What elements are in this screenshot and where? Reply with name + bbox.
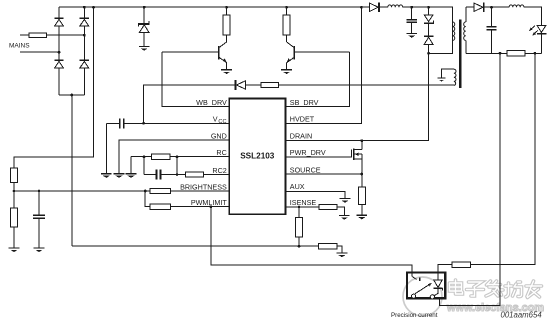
svg-text:MAINS: MAINS <box>9 42 30 49</box>
transformer T1: core <box>459 20 461 89</box>
node: drain junction <box>360 139 363 142</box>
node: negative rail junction <box>298 245 301 248</box>
svg-text:BRIGHTNESS: BRIGHTNESS <box>180 182 227 191</box>
wire: bridge negative join <box>59 94 84 96</box>
op-amp U1: SSL2103 controller body <box>229 98 285 214</box>
ground: left transistor emitter <box>221 69 232 74</box>
wire: GND pin to ground <box>119 140 229 173</box>
node: rail junction right collector resistor <box>285 6 288 9</box>
ground: VCC cap <box>101 173 112 178</box>
resistor: precision block series <box>452 262 470 267</box>
transistor: right NPN (string balance drive, mirrored) <box>286 42 295 69</box>
node: PWMLIMIT junction to dim loop <box>209 205 212 208</box>
node: source junction <box>360 173 363 176</box>
svg-text:RC: RC <box>216 148 226 157</box>
capacitor: snubber cap to ground <box>407 7 417 33</box>
ground: source sense resistor <box>356 215 367 220</box>
node: mains line 1 junction <box>83 34 86 37</box>
LED: output LED <box>529 25 547 53</box>
label: pin VCC <box>213 115 227 125</box>
wire: top rail between flyback diode and inductor <box>378 6 388 8</box>
bridge diode D2 (top-right) <box>80 7 89 59</box>
node: brightness-pwmlimit tie <box>144 190 147 193</box>
wire: WB_DRV to left transistor base <box>162 52 229 106</box>
ground: rail TVS <box>139 46 150 51</box>
wire: left transistor base <box>162 51 218 53</box>
node: precision block terminal 1 <box>412 294 416 298</box>
svg-text:SSL2103: SSL2103 <box>240 152 275 161</box>
ground: brightness cap <box>34 247 45 252</box>
transformer T1: primary winding <box>452 7 454 53</box>
zener diode: clamp TVS (upper) <box>424 7 434 36</box>
node: RC node right <box>176 155 179 158</box>
node: bridge negative junction <box>71 94 74 97</box>
svg-text:HVDET: HVDET <box>290 115 315 124</box>
node: brightness cap tap <box>38 190 41 193</box>
wire: rectified HV top rail <box>59 6 370 8</box>
resistor: return rail to ground <box>318 244 342 253</box>
svg-text:Precision current: Precision current <box>391 312 438 319</box>
capacitor: RC2 parallel <box>144 170 177 180</box>
ground: divider lower <box>9 247 20 252</box>
node: VCC junction to aux supply <box>142 122 145 125</box>
resistor: left collector resistor <box>223 7 230 42</box>
svg-text:PWMLIMIT: PWMLIMIT <box>191 198 228 207</box>
wire: divider mid <box>13 183 15 191</box>
ground: ISENSE <box>339 215 350 220</box>
diode: clamp blocking (lower, points up) <box>424 36 434 54</box>
node: ISENSE divider junction <box>298 206 301 209</box>
node: secondary cap junction <box>490 6 493 9</box>
resistor: LED current sense <box>466 51 542 56</box>
node: precision block terminal 2 <box>430 295 434 299</box>
svg-text:001aam654: 001aam654 <box>501 311 543 320</box>
wire: negative return rail <box>72 245 319 247</box>
node: sense left tap <box>499 52 502 55</box>
wire: clamp junction down to drain line <box>428 53 430 140</box>
wire: sense right tap down <box>470 53 535 264</box>
wire: top rail from inductor to transformer primary <box>403 7 453 53</box>
resistor: ISENSE pulldown <box>296 207 303 246</box>
node: rail junction x84 <box>83 6 86 9</box>
svg-text:CC: CC <box>218 119 226 125</box>
wire: RC-RC2 tie left <box>143 157 145 175</box>
watermark: elecfans logo circle <box>403 277 442 316</box>
svg-text:ISENSE: ISENSE <box>290 198 317 207</box>
svg-text:SB_DRV: SB_DRV <box>290 98 319 107</box>
resistor: divider lower <box>11 191 18 247</box>
wire: secondary top right <box>524 7 542 25</box>
resistor: RC2 series <box>177 172 229 177</box>
transistor: precision block internal transistor <box>412 277 432 294</box>
svg-text:PWR_DRV: PWR_DRV <box>290 148 326 157</box>
resistor: divider upper <box>11 168 18 183</box>
precision current block: outline box <box>407 272 445 298</box>
bridge diode D4 (bottom-right) <box>80 60 89 96</box>
transformer T1: secondary winding <box>464 7 466 53</box>
resistor: aux supply series <box>261 82 278 87</box>
bridge diode D3 (bottom-left) <box>54 60 63 96</box>
ground: GND pin <box>114 173 125 178</box>
wire: aux supply line to aux winding <box>278 84 454 86</box>
wire: DRAIN line <box>285 140 429 142</box>
resistor: RC timing <box>131 154 229 159</box>
wire: VCC cap to ground <box>105 123 107 173</box>
transistor: left PNP-style NPN (white balance drive) <box>218 42 227 69</box>
node: divider tap <box>13 190 16 193</box>
node: mains line 2 junction <box>58 51 61 54</box>
ground: AUX pin <box>340 198 351 203</box>
node: clamp/primary/drain junction <box>427 52 430 55</box>
transformer T1: auxiliary winding <box>442 69 457 85</box>
resistor: source sense <box>358 174 365 215</box>
capacitor: brightness filter <box>33 191 45 247</box>
resistor: ISENSE series <box>285 204 344 215</box>
resistor: PWMLIMIT series <box>145 191 229 209</box>
ground: right transistor emitter <box>281 69 292 74</box>
svg-text:RC2: RC2 <box>212 166 226 175</box>
diode: flyback rail rectifier <box>370 2 380 12</box>
inductor: rail filter choke <box>388 5 403 7</box>
svg-text:DRAIN: DRAIN <box>290 131 312 140</box>
node: rail junction clamp <box>427 6 430 9</box>
bridge diode D1 (top-left) <box>54 7 63 59</box>
wire: SB_DRV to right transistor base <box>285 52 349 106</box>
wire: resistor to zener input <box>438 265 452 280</box>
node: RC node left <box>143 155 146 158</box>
capacitor: VCC decoupling <box>106 118 229 128</box>
ground: return rail <box>337 252 348 257</box>
node: sense right tap <box>534 52 537 55</box>
wire: VCC up to aux supply line <box>144 85 235 123</box>
resistor: mains fusible resistor <box>20 33 84 38</box>
inductor: output choke <box>509 5 524 7</box>
ground: auxiliary winding <box>438 78 446 82</box>
wire: sense left tap to precision block return <box>440 53 500 305</box>
node: rail junction snubber cap <box>410 6 413 9</box>
node: rail junction HVDET <box>360 6 363 9</box>
wire: mains line 2 <box>20 51 59 53</box>
svg-text:V: V <box>213 115 218 124</box>
wire: AUX pin to ground <box>285 191 345 198</box>
resistor: BRIGHTNESS series <box>14 188 229 193</box>
node: rail junction x93 <box>92 6 95 9</box>
wire: RC-RC2 tie right <box>176 157 178 175</box>
wire: secondary top line <box>466 6 474 8</box>
wire: HVDET to HV rail <box>285 7 361 123</box>
diode: aux supply rectifier (points left) <box>235 80 261 90</box>
resistor: right collector resistor <box>283 7 290 42</box>
wire: right transistor base <box>295 51 349 53</box>
watermark: CJK characters 电子发烧友 <box>450 280 542 298</box>
wire: PWMLIMIT to precision current block <box>211 207 412 277</box>
wire: bridge negative down-left rail <box>71 95 73 246</box>
svg-text:SOURCE: SOURCE <box>290 165 321 174</box>
wire: SOURCE line <box>285 173 361 175</box>
node: rail junction zener <box>143 6 146 9</box>
zener diode: precision block reference <box>434 280 443 296</box>
ground: snubber cap <box>406 33 417 38</box>
svg-text:WB_DRV: WB_DRV <box>196 98 227 107</box>
wire: RC to ground <box>130 157 132 173</box>
svg-text:AUX: AUX <box>290 182 305 191</box>
svg-text:GND: GND <box>211 131 227 140</box>
transistor Q3: power MOSFET <box>285 141 361 174</box>
node: rail junction left collector resistor <box>225 6 228 9</box>
zener diode: rail TVS <box>138 7 150 46</box>
node: RC2 junction <box>176 173 179 176</box>
wire: HV sense divider feed <box>14 7 94 168</box>
capacitor: output filter <box>486 7 496 53</box>
diode: secondary rectifier <box>474 2 509 12</box>
ground: RC <box>126 173 137 178</box>
